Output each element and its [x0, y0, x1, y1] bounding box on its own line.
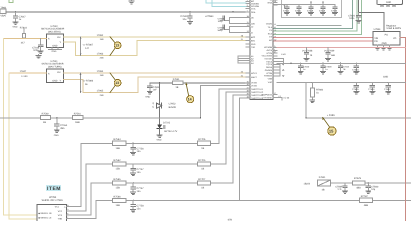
off-page connector 15: [322, 114, 336, 135]
wire cyan TDI: [206, 0, 246, 3]
capacitor C7640: [298, 63, 310, 74]
svg-text:U7940: U7940: [51, 25, 59, 28]
capacitor C7647b: [384, 82, 391, 94]
ground for D7705: [157, 135, 162, 142]
svg-text:R7566: R7566: [114, 195, 122, 198]
capacitor C7643: [338, 63, 350, 74]
svg-text:36: 36: [247, 83, 249, 86]
capacitor C7619: [319, 1, 326, 15]
node junction row118 riser: [200, 117, 201, 118]
wire row 118 left segment: [0, 117, 201, 119]
svg-text:SN74LVC1G07DBVR: SN74LVC1G07DBVR: [42, 63, 64, 66]
capacitor C7638 electrolytic: [302, 48, 313, 61]
svg-text:15B: 15B: [116, 147, 121, 150]
svg-text:R7561: R7561: [74, 112, 82, 115]
svg-text:U7941: U7941: [51, 60, 59, 63]
wire MCLSENS yellow U7940 out B routed: [64, 41, 247, 56]
ground for C7649: [188, 22, 193, 25]
node junction C7638 tap: [306, 47, 307, 48]
resistor R7564: [113, 138, 126, 150]
svg-text:+C7B64: +C7B64: [205, 15, 214, 18]
svg-text:AVCA: AVCA: [266, 49, 272, 52]
node net label T7964: [97, 70, 104, 77]
svg-text:1nF: 1nF: [153, 89, 158, 92]
svg-text:R7565: R7565: [114, 178, 122, 181]
MCU right inner labels: [261, 0, 273, 99]
wire throttle4 riser: [211, 98, 246, 200]
svg-text:C7B3F: C7B3F: [335, 186, 343, 189]
wire AO red to regulator EN: [274, 40, 373, 42]
svg-text:BAV99: BAV99: [169, 106, 177, 109]
wire row 118 right segment: [306, 117, 411, 119]
svg-text:15n: 15n: [137, 207, 142, 210]
ground for C7554: [54, 130, 59, 137]
node junction C7554 tap: [56, 117, 57, 118]
ground top middle: [129, 0, 134, 4]
wire throttle2 riser: [211, 92, 246, 164]
svg-text:4B8: 4B8: [364, 204, 369, 207]
wire VDDM dead stub: [277, 24, 341, 26]
crystal bracket X1: [226, 18, 246, 24]
svg-text:(+) C7638: (+) C7638: [302, 50, 313, 53]
connector inner labels: [55, 206, 66, 221]
svg-text:33: 33: [241, 71, 243, 74]
wire orange left vertical WHEEL2: [9, 73, 37, 219]
svg-text:AO: AO: [269, 39, 272, 42]
svg-text:VBAT: VBAT: [0, 14, 7, 17]
svg-text:+ D1B5: + D1B5: [327, 114, 335, 117]
svg-text:EN: EN: [374, 40, 378, 43]
label U7940: [41, 25, 65, 34]
capacitor C7646: [32, 39, 43, 53]
svg-text:25B: 25B: [100, 57, 104, 60]
wire VBAT rail y=11.8: [6, 11, 246, 13]
svg-text:25B: 25B: [100, 94, 104, 97]
svg-text:(MAX TURN): (MAX TURN): [48, 65, 62, 68]
svg-text:1B: 1B: [175, 86, 178, 89]
capacitor C7645: [352, 82, 359, 94]
svg-text:MAXT: MAXT: [251, 76, 258, 79]
svg-text:GNDPA: GNDPA: [265, 69, 273, 72]
svg-text:3.3&3 8.4MPS: 3.3&3 8.4MPS: [386, 27, 401, 30]
wire 3V3 rail pink: [277, 47, 405, 49]
svg-text:13: 13: [115, 44, 119, 48]
wire MAXTURN orange U7941 out B routed: [64, 77, 247, 93]
ground stubs regulator: [378, 45, 390, 47]
svg-text:15B: 15B: [100, 38, 104, 41]
capacitor C7614: [283, 5, 290, 15]
svg-text:7: 7: [67, 216, 68, 219]
node junction C7756 tap: [132, 143, 133, 144]
svg-text:GNS: GNS: [267, 1, 272, 4]
svg-text:R7562: R7562: [114, 159, 122, 162]
svg-text:R7678: R7678: [354, 177, 362, 180]
node bottom right net stub: [282, 97, 290, 101]
svg-text:VCOB: VCOB: [266, 72, 273, 75]
svg-text:17: 17: [274, 92, 276, 95]
dimension annotation R7866 between pair: [80, 73, 94, 93]
svg-text:GND: GND: [383, 76, 388, 79]
wire 3V3 feed black: [359, 0, 384, 32]
svg-text:SDA: SDA: [251, 11, 256, 14]
svg-text:(+) C7639: (+) C7639: [324, 50, 335, 53]
wire lower right pins cluster: [280, 59, 284, 76]
svg-text:15B: 15B: [116, 168, 121, 171]
MCU U7901 main IC box: [250, 0, 273, 100]
svg-text:TX A: TX A: [267, 26, 272, 29]
resistor R7678: [352, 177, 365, 189]
svg-text:15: 15: [329, 129, 334, 134]
power arrow VCC: [283, 4, 285, 8]
svg-text:R7706: R7706: [198, 138, 206, 141]
svg-text:TXD: TXD: [251, 46, 256, 49]
svg-text:10u: 10u: [182, 18, 187, 21]
svg-text:1 MO: 1 MO: [281, 53, 286, 56]
ground for C7647: [13, 22, 18, 25]
svg-text:R7787: R7787: [361, 195, 369, 198]
svg-text:VO: VO: [393, 37, 397, 40]
svg-text:39: 39: [247, 93, 249, 96]
svg-text:37: 37: [247, 87, 249, 90]
ground for C7650: [145, 91, 152, 98]
node junction at vertical tap: [159, 82, 160, 83]
MCU left pin stubs: [246, 1, 250, 98]
svg-text:WDDBN: WDDBN: [251, 3, 259, 6]
wire throttle1 riser: [211, 89, 246, 143]
node junction C7757 tap: [132, 182, 133, 183]
node junction C7647 tap: [15, 11, 16, 12]
capacitor C7648: [321, 63, 333, 74]
svg-text:XP7B0: XP7B0: [49, 196, 57, 199]
svg-text:38: 38: [247, 90, 249, 93]
resistor R7560: [41, 112, 51, 124]
wire row 118 riser right: [305, 82, 307, 117]
capacitor X1 load: [218, 16, 225, 23]
svg-text:1BB: 1BB: [75, 121, 80, 124]
node junction C7x43 tap: [344, 182, 345, 183]
svg-text:GND: GND: [52, 79, 57, 82]
svg-text:SN74LVC1G125DBVR: SN74LVC1G125DBVR: [41, 28, 65, 31]
wire row 200 left: [96, 199, 411, 201]
svg-text:S7B: S7B: [228, 218, 233, 221]
capacitor C7650: [148, 83, 161, 92]
crystal bracket X2: [226, 27, 246, 33]
svg-text:PG: PG: [385, 34, 389, 37]
svg-text:GND: GND: [52, 45, 57, 48]
off-page connector 14: [186, 83, 194, 103]
capacitor C7757a: [131, 164, 145, 176]
wire throttle sense row to MCU: [150, 82, 173, 84]
node net label T7963: [97, 52, 104, 59]
node pin diamonds right: [282, 63, 284, 76]
svg-text:GND: GND: [157, 139, 162, 142]
resistor R7561: [73, 112, 83, 124]
svg-text:SCA: SCA: [268, 32, 273, 35]
capacitor C7639 electrolytic: [324, 48, 336, 61]
resistor R7644 pull-up: [20, 27, 28, 45]
svg-text:MCLS: MCLS: [251, 72, 257, 75]
off-page connector 13 upper: [110, 37, 121, 56]
node junction main rail at X1 cap branch: [232, 11, 233, 12]
connector XP7700 box: [37, 204, 66, 222]
svg-text:R7660: R7660: [316, 89, 323, 92]
capacitor C7620: [331, 5, 338, 15]
wire CS red to regulator VIN: [274, 37, 373, 39]
svg-text:15B: 15B: [116, 186, 121, 189]
svg-text:R7644: R7644: [20, 27, 28, 30]
svg-text:BZT52-4.7V: BZT52-4.7V: [164, 130, 177, 133]
capacitor C7646b: [368, 82, 375, 94]
svg-text:Regulator: Regulator: [386, 24, 396, 27]
svg-text:VIN: VIN: [374, 37, 378, 40]
MCU right pin stubs: [273, 0, 284, 97]
wire regulator output red: [400, 38, 405, 221]
node junction C7840 tap: [368, 182, 369, 183]
wire VUP row B: [277, 81, 405, 83]
svg-text:VGB: VGB: [268, 77, 273, 80]
svg-text:19: 19: [274, 0, 276, 3]
node junction row 118 tap: [159, 117, 160, 118]
svg-text:C7B40: C7B40: [371, 186, 379, 189]
svg-text:RXD: RXD: [251, 43, 256, 46]
svg-text:D7705: D7705: [163, 121, 171, 124]
svg-text:VCCB: VCCB: [251, 84, 257, 87]
svg-text:4B: 4B: [43, 121, 46, 124]
svg-text:WHEEL OR 1.27WG: WHEEL OR 1.27WG: [42, 199, 63, 202]
resistor R7566: [113, 195, 126, 207]
svg-text:13: 13: [115, 81, 119, 85]
svg-text:GND: GND: [382, 42, 387, 45]
svg-text:GND: GND: [13, 25, 18, 28]
svg-text:TQCA: TQCA: [266, 63, 272, 66]
svg-text:11: 11: [247, 21, 249, 24]
IC GND box top right corner: [377, 0, 403, 6]
wire throttle0 row118 riser: [201, 86, 247, 118]
svg-text:GNDA: GNDA: [266, 66, 273, 69]
diode D7652 pair: [152, 102, 176, 109]
wire stub bus left mid: [238, 56, 246, 63]
svg-text:15B: 15B: [116, 204, 121, 207]
resistor R7787: [360, 195, 373, 207]
wire TXA teal: [274, 0, 353, 28]
svg-text:GND: GND: [386, 1, 391, 4]
capacitor C7644b: [352, 63, 359, 74]
capacitor C7647: [13, 12, 26, 22]
capacitor C7649: [180, 12, 192, 22]
decoupling caps group box: [282, 0, 342, 18]
wire RX green: [274, 0, 357, 31]
wire MCLSENS yellow U7940 out A to MCU: [64, 36, 247, 38]
capacitor C7554: [55, 118, 68, 130]
svg-text:n | txt: n | txt: [284, 97, 290, 100]
svg-text:17964: 17964: [97, 70, 104, 73]
svg-text:4B8: 4B8: [356, 187, 361, 190]
label ITEM highlighted: [46, 185, 61, 192]
node junction C7639 tap: [327, 47, 328, 48]
dimension annotation R7867 between pair: [80, 37, 94, 56]
diode D7705 zener: [157, 118, 177, 135]
wire row 183 left: [91, 182, 197, 184]
svg-text:1B: 1B: [201, 168, 204, 171]
wire row 143: [81, 142, 197, 144]
op-amp U7941 buffer box: [47, 69, 64, 82]
svg-text:VCCB: VCCB: [266, 52, 272, 55]
node junction row118 right riser: [305, 117, 306, 118]
node junction C7758 tap: [132, 200, 133, 201]
svg-text:GND: GND: [54, 134, 59, 137]
resistor R7660: [310, 82, 324, 103]
wire row 200 riser from XP: [71, 200, 97, 218]
wire MAXTURN orange U7941 out A: [64, 72, 247, 74]
wire U7941 input orange: [9, 72, 47, 74]
svg-text:17965: 17965: [97, 90, 104, 93]
capacitor X2 load: [218, 25, 225, 32]
svg-text:VUP: VUP: [268, 81, 273, 84]
svg-text:VDDM: VDDM: [266, 23, 272, 26]
svg-text:X7841: X7841: [319, 176, 327, 179]
svg-text:35: 35: [247, 81, 249, 84]
MCU right pin numbers: [274, 0, 286, 98]
svg-text:(MCLSENS): (MCLSENS): [48, 30, 61, 33]
node green connector stub at top edge: [9, 0, 13, 2]
ground U7940: [49, 48, 62, 54]
svg-text:YELLOWW: YELLOWW: [261, 54, 272, 57]
ground for C7646: [38, 51, 43, 54]
svg-text:34: 34: [241, 74, 243, 77]
capacitor C7843: [335, 183, 347, 194]
wire vertical throttle tap down: [159, 83, 161, 118]
capacitor C7624: [348, 12, 361, 23]
resistor R7562: [113, 159, 126, 171]
regulator U7961 box: [373, 32, 400, 46]
wire row 143 riser from XP: [71, 143, 82, 206]
svg-text:ITEM: ITEM: [47, 186, 61, 192]
svg-text:R7564: R7564: [114, 138, 122, 141]
svg-text:R7705: R7705: [198, 159, 206, 162]
svg-text:FGGNW: FGGNW: [264, 75, 272, 78]
wire row 183 riser from XP: [71, 183, 92, 215]
node net label T7965: [97, 90, 104, 97]
svg-text:R7707: R7707: [198, 178, 206, 181]
svg-text:3: 3: [247, 4, 248, 7]
svg-text:13: 13: [247, 30, 249, 33]
op-amp U7940 buffer box: [47, 34, 64, 47]
capacitor C7757: [131, 183, 145, 195]
resistor R7651: [172, 78, 183, 89]
svg-text:◆ WHEEL 1B: ◆ WHEEL 1B: [38, 212, 52, 215]
svg-text:GND: GND: [145, 95, 150, 98]
svg-text:9: 9: [67, 212, 68, 215]
svg-text:100n: 100n: [349, 17, 355, 20]
MCU left pin numbers: [241, 0, 250, 99]
connector pin numbers: [67, 204, 69, 219]
svg-text:THROTTLE1: THROTTLE1: [251, 88, 264, 91]
ground above U7941: [36, 55, 41, 59]
connector right pin stubs: [66, 207, 70, 219]
svg-text:15n: 15n: [137, 190, 142, 193]
svg-text:C7624: C7624: [348, 15, 355, 18]
svg-text:7: 7: [247, 10, 248, 13]
resistor R7707: [197, 178, 210, 190]
wire AVCC row A: [277, 62, 405, 64]
wire row 164: [86, 163, 197, 165]
wire caps group feed: [274, 4, 335, 6]
svg-text:TQCA: TQCA: [266, 60, 272, 63]
capacitor C7621: [295, 4, 302, 15]
svg-text:1B: 1B: [201, 147, 204, 150]
capacitor C7758: [131, 200, 145, 212]
svg-text:14: 14: [188, 98, 192, 102]
wire orange left vertical WHEEL1: [4, 39, 38, 215]
svg-text:VCCMC: VCCMC: [264, 57, 272, 60]
svg-text:CCA: CCA: [251, 7, 256, 10]
node junction C7757a tap: [132, 163, 133, 164]
svg-text:12: 12: [247, 24, 249, 27]
node junction C7649 tap: [189, 11, 190, 12]
svg-text:1: 1: [247, 0, 248, 2]
capacitor C7756: [131, 143, 145, 155]
svg-text:GND: GND: [52, 50, 57, 53]
svg-text:X7651: X7651: [173, 78, 181, 81]
svg-text:21: 21: [241, 38, 243, 41]
svg-text:1B3 B: 1B3 B: [304, 183, 311, 186]
svg-text:VCCB: VCCB: [251, 82, 257, 85]
capacitor C7840: [366, 183, 379, 194]
svg-text:17963: 17963: [97, 52, 104, 55]
resistor R7705a: [197, 159, 210, 171]
node net label R7847 input: [20, 70, 29, 78]
MCU left inner labels: [251, 0, 264, 100]
wire cyan TDO: [212, 0, 246, 6]
svg-text:1=100: 1=100: [21, 75, 28, 78]
ground marks regulator: [375, 47, 392, 50]
svg-text:1B: 1B: [201, 186, 204, 189]
svg-text:68B: 68B: [331, 54, 335, 57]
svg-text:TTFVGSE: TTFVGSE: [262, 96, 272, 99]
capacitor C7618: [307, 1, 314, 15]
resistor R7706: [197, 138, 210, 150]
svg-text:17962: 17962: [97, 34, 104, 37]
node junction rowA left: [290, 63, 291, 64]
svg-text:4k7: 4k7: [21, 41, 26, 44]
label XP7700 connector name: [42, 196, 63, 202]
resistor R7565: [113, 178, 126, 190]
svg-text:4B: 4B: [322, 189, 325, 192]
wire SCA green: [274, 0, 362, 34]
wire U7940 input orange: [4, 38, 47, 40]
node TP7601 test point box top-left: [0, 6, 7, 17]
svg-text:15B: 15B: [100, 74, 104, 77]
svg-text:◆ WHEEL LE: ◆ WHEEL LE: [38, 216, 52, 219]
svg-text:L: L: [274, 48, 275, 51]
svg-text:U7961: U7961: [374, 28, 382, 31]
wire AVCC stub riser: [283, 59, 285, 64]
svg-text:2B5: 2B5: [60, 127, 65, 130]
node junction C7646 tap: [40, 38, 41, 39]
svg-text:147: 147: [85, 47, 90, 50]
wire throttle3 riser: [211, 95, 246, 183]
svg-text:VADPWEW: VADPWEW: [261, 93, 272, 96]
svg-text:TP60: TP60: [0, 6, 6, 9]
wire row 183 right segment: [330, 182, 411, 184]
svg-text:15n: 15n: [137, 171, 142, 174]
svg-text:R7560: R7560: [42, 112, 50, 115]
label U7941: [42, 60, 64, 69]
fuse U7843: [318, 176, 331, 192]
node net label T7962: [97, 34, 104, 41]
wire row 164 riser from XP: [71, 164, 87, 211]
svg-text:WCAGB: WCAGB: [264, 46, 272, 49]
